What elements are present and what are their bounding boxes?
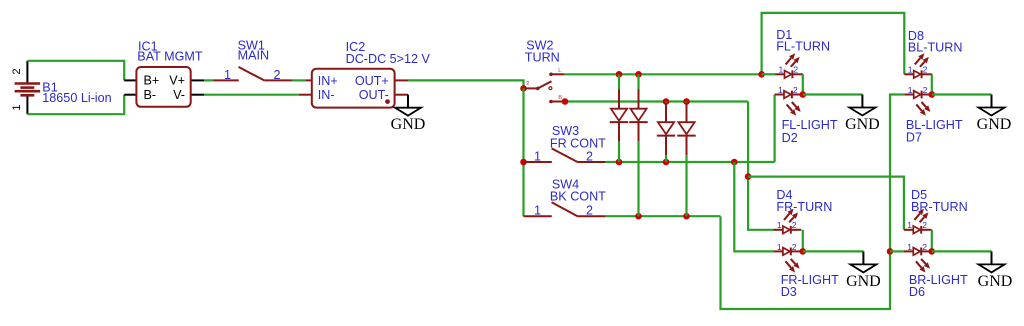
IC1 pin V- xyxy=(191,94,205,96)
svg-text:2: 2 xyxy=(793,85,798,95)
diode D9 (L to front) xyxy=(610,74,628,162)
svg-text:1: 1 xyxy=(777,242,782,252)
wire D1 cathode down to D2 xyxy=(802,74,804,94)
svg-text:V+: V+ xyxy=(169,74,185,88)
svg-text:B+: B+ xyxy=(144,74,160,88)
svg-text:2: 2 xyxy=(586,203,593,217)
svg-text:FR-TURN: FR-TURN xyxy=(776,200,832,214)
diode D10 (L to back) xyxy=(629,74,647,216)
svg-text:1: 1 xyxy=(777,220,782,230)
wire rail front (SW3) xyxy=(606,161,775,163)
LED D4 FR-TURN xyxy=(774,209,802,234)
svg-text:2: 2 xyxy=(586,150,593,164)
wire battery+ to IC1 xyxy=(27,61,124,81)
junction rail front branch to D3 xyxy=(731,159,738,166)
wire top bridge to D8 xyxy=(762,13,905,74)
diode D11 (R to front) xyxy=(657,102,675,163)
junction D6 anode feed xyxy=(887,248,894,255)
ground FL xyxy=(845,95,880,134)
ground FR xyxy=(846,251,881,290)
junction rail back / D10 cathode xyxy=(635,213,642,220)
wire V- to IC2 IN- xyxy=(204,94,298,96)
wire battery- to IC1 xyxy=(27,95,124,115)
svg-text:MAIN: MAIN xyxy=(238,48,269,62)
IC1 pin B+ xyxy=(124,79,136,81)
svg-text:DC-DC 5>12 V: DC-DC 5>12 V xyxy=(346,52,431,66)
wire D2 cathode to GND xyxy=(803,93,863,95)
svg-text:GND: GND xyxy=(391,116,426,133)
svg-text:1: 1 xyxy=(779,65,784,75)
svg-text:FL-TURN: FL-TURN xyxy=(776,40,830,54)
wire rail L (SW2-L) xyxy=(564,73,761,75)
IC2 OUT- marker dot xyxy=(385,99,390,104)
ground at IC2 OUT- xyxy=(391,95,426,134)
wire D5 cathode down to D6 xyxy=(931,230,933,252)
junction rail R / D12 xyxy=(683,98,690,105)
wire D8 cathode down to D7 xyxy=(931,74,933,94)
svg-text:GND: GND xyxy=(845,116,880,133)
junction at SW3 pin1 xyxy=(520,159,527,166)
junction at SW2 common xyxy=(520,85,527,92)
junction branch to D5 xyxy=(745,173,752,180)
svg-text:BAT MGMT: BAT MGMT xyxy=(137,49,203,63)
junction rail front / D11 cathode xyxy=(663,159,670,166)
junction D6 cathode xyxy=(929,248,936,255)
wire D7 cathode to GND xyxy=(932,93,992,95)
svg-text:IN+: IN+ xyxy=(318,74,338,88)
svg-text:1: 1 xyxy=(907,242,912,252)
LED D1 FL-TURN xyxy=(775,53,803,78)
wire V+ to SW1 xyxy=(204,79,213,81)
ground BL xyxy=(977,95,1012,134)
svg-text:2: 2 xyxy=(923,65,928,75)
wire rail R down to D4 anode xyxy=(748,102,773,230)
IC2 pin IN- xyxy=(299,94,312,96)
junction rail L / D10 xyxy=(635,71,642,78)
svg-text:OUT+: OUT+ xyxy=(355,74,389,88)
junction D1 feed xyxy=(758,71,765,78)
LED D2 FL-LIGHT xyxy=(775,85,803,116)
IC2 body xyxy=(312,69,395,108)
wire SW2 common down to SW3/SW4 xyxy=(522,88,524,216)
svg-text:2: 2 xyxy=(11,68,23,74)
switch SW1 xyxy=(214,67,293,81)
svg-text:BK CONT: BK CONT xyxy=(550,190,606,204)
svg-text:GND: GND xyxy=(978,273,1013,290)
svg-text:IN-: IN- xyxy=(318,88,335,102)
LED D7 BL-LIGHT xyxy=(904,85,932,116)
IC1 pin V+ xyxy=(191,79,205,81)
wire rail back bottom bridge to D7/D6 xyxy=(721,95,905,310)
switch SW4 xyxy=(524,202,606,216)
wire rail R (SW2-B) xyxy=(565,100,748,102)
svg-text:GND: GND xyxy=(846,273,881,290)
switch SW2 (SPDT turn selector) xyxy=(524,68,566,103)
wire rail back (SW4) xyxy=(606,215,721,217)
svg-text:FR CONT: FR CONT xyxy=(550,136,606,150)
IC1 body xyxy=(136,67,190,107)
wire OUT+ to SW2 xyxy=(408,80,524,88)
LED D5 BR-TURN xyxy=(904,209,932,234)
junction D7 cathode xyxy=(929,91,936,98)
svg-text:TURN: TURN xyxy=(525,51,560,65)
svg-text:1: 1 xyxy=(224,68,231,82)
svg-text:1: 1 xyxy=(534,150,541,164)
svg-text:1: 1 xyxy=(778,85,783,95)
svg-text:1: 1 xyxy=(907,220,912,230)
svg-text:OUT-: OUT- xyxy=(359,88,389,102)
wire SW1 to IC2 xyxy=(292,79,305,81)
wire to D6 anode xyxy=(890,250,904,252)
switch SW3 xyxy=(524,148,606,162)
svg-text:18650 Li-ion: 18650 Li-ion xyxy=(42,91,111,105)
svg-text:B-: B- xyxy=(144,88,157,102)
junction rail back / D12 cathode xyxy=(683,213,690,220)
svg-text:BL-TURN: BL-TURN xyxy=(908,41,963,55)
wire to D1 anode xyxy=(762,73,776,75)
junction D2 cathode xyxy=(800,91,807,98)
svg-text:2: 2 xyxy=(793,65,798,75)
svg-text:2: 2 xyxy=(922,242,927,252)
junction SW2-B pin xyxy=(562,98,569,105)
svg-text:1: 1 xyxy=(534,203,541,217)
IC2 pin OUT- xyxy=(395,94,408,96)
junction rail L / D9 xyxy=(616,71,623,78)
battery B1 xyxy=(15,61,40,114)
svg-text:2: 2 xyxy=(792,220,797,230)
svg-text:D7: D7 xyxy=(906,131,922,145)
wire rail front down to D3 anode xyxy=(734,162,773,251)
svg-text:2: 2 xyxy=(526,81,529,87)
svg-text:GND: GND xyxy=(977,116,1012,133)
svg-text:1: 1 xyxy=(908,65,913,75)
IC1 pin B- xyxy=(124,94,136,96)
svg-text:2: 2 xyxy=(922,220,927,230)
svg-text:D2: D2 xyxy=(782,131,798,145)
svg-text:2: 2 xyxy=(792,242,797,252)
svg-text:2: 2 xyxy=(273,68,280,82)
svg-text:D6: D6 xyxy=(909,285,925,299)
wire D6 cathode to GND xyxy=(932,250,992,252)
IC2 pin OUT+ xyxy=(395,79,408,81)
LED D6 BR-LIGHT xyxy=(904,242,932,273)
LED D8 BL-TURN xyxy=(904,53,932,78)
svg-text:FL-LIGHT: FL-LIGHT xyxy=(782,118,838,132)
svg-text:D3: D3 xyxy=(781,285,797,299)
svg-text:B: B xyxy=(558,95,562,101)
junction D3 cathode xyxy=(800,248,807,255)
wire branch to D5 anode xyxy=(748,177,904,230)
diode D12 (R to back) xyxy=(677,102,695,217)
svg-text:1: 1 xyxy=(11,104,23,110)
ground BR xyxy=(978,251,1013,290)
wire D3 cathode to GND xyxy=(803,250,864,252)
LED D3 FR-LIGHT xyxy=(774,242,802,273)
IC2 pin IN+ xyxy=(305,79,312,81)
junction rail R / D11 xyxy=(663,98,670,105)
wire D4 cathode down to D3 xyxy=(802,230,804,252)
svg-text:V-: V- xyxy=(173,88,185,102)
svg-text:2: 2 xyxy=(923,85,928,95)
svg-text:BR-TURN: BR-TURN xyxy=(911,200,968,214)
svg-text:1: 1 xyxy=(908,85,913,95)
junction rail front / D9 cathode xyxy=(616,159,623,166)
wire rail front up to D2 anode xyxy=(773,95,775,163)
